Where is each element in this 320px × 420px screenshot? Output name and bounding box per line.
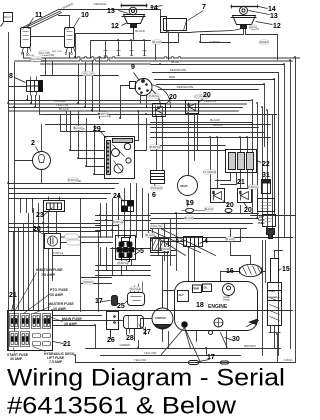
- svg-text:GREEN: GREEN: [259, 40, 268, 44]
- svg-text:YELLOW: YELLOW: [144, 351, 157, 355]
- svg-text:21: 21: [9, 292, 17, 299]
- svg-text:IGNITION FUSE: IGNITION FUSE: [36, 268, 63, 272]
- svg-text:7.5 AMP.: 7.5 AMP.: [41, 273, 55, 277]
- svg-text:13: 13: [107, 8, 115, 15]
- svg-text:21: 21: [237, 179, 245, 186]
- svg-text:BLACK: BLACK: [135, 29, 145, 33]
- svg-text:28: 28: [126, 335, 134, 342]
- svg-text:LT GREEN: LT GREEN: [203, 170, 216, 174]
- svg-text:31: 31: [262, 172, 270, 179]
- svg-text:YELLOW: YELLOW: [83, 72, 94, 76]
- svg-text:9: 9: [131, 64, 135, 71]
- svg-text:20: 20: [33, 226, 41, 233]
- svg-text:TEMP: TEMP: [193, 288, 200, 291]
- svg-text:10: 10: [81, 12, 89, 19]
- svg-text:ORANGE: ORANGE: [93, 2, 106, 6]
- svg-text:2: 2: [31, 140, 35, 147]
- svg-text:14: 14: [268, 6, 276, 13]
- svg-text:30: 30: [232, 336, 240, 343]
- svg-text:26: 26: [107, 337, 115, 344]
- svg-text:7: 7: [202, 4, 206, 11]
- svg-text:SEAT: SEAT: [180, 184, 188, 188]
- svg-text:12: 12: [111, 23, 119, 30]
- svg-text:TAILLITE: TAILLITE: [151, 224, 162, 228]
- svg-text:RED/WHITE: RED/WHITE: [170, 68, 187, 72]
- svg-text:GRAY: GRAY: [249, 25, 256, 29]
- svg-text:C1534A: C1534A: [284, 359, 293, 362]
- svg-text:SOLENOID: SOLENOID: [268, 297, 280, 299]
- svg-text:17: 17: [207, 354, 215, 361]
- svg-text:BLUE: BLUE: [171, 60, 179, 64]
- svg-text:BLACK: BLACK: [205, 207, 214, 211]
- svg-text:BLACK: BLACK: [210, 118, 220, 122]
- svg-text:PTO FUSE: PTO FUSE: [50, 288, 69, 292]
- svg-text:25: 25: [117, 303, 125, 310]
- svg-text:4: 4: [204, 238, 208, 245]
- svg-text:PLUG: PLUG: [224, 300, 230, 302]
- svg-text:5: 5: [140, 248, 144, 255]
- svg-text:BLK/ORG: BLK/ORG: [30, 57, 42, 61]
- svg-text:ENGINE: ENGINE: [208, 304, 228, 310]
- svg-text:OIL: OIL: [204, 287, 209, 290]
- svg-text:GREEN: GREEN: [210, 40, 221, 44]
- svg-text:RED/OR: RED/OR: [26, 55, 35, 57]
- svg-text:18: 18: [196, 302, 204, 309]
- svg-text:BLACK: BLACK: [59, 107, 69, 111]
- svg-text:E: E: [239, 190, 242, 195]
- svg-text:29: 29: [93, 126, 101, 133]
- svg-text:BLACK: BLACK: [74, 126, 83, 130]
- svg-text:Wiring Diagram - Serial: Wiring Diagram - Serial: [7, 365, 285, 392]
- svg-text:GREEN: GREEN: [120, 343, 131, 347]
- svg-text:19: 19: [186, 200, 194, 207]
- svg-text:24: 24: [113, 193, 121, 200]
- svg-text:YELLOW: YELLOW: [204, 99, 217, 103]
- svg-text:#6413561 & Below: #6413561 & Below: [7, 393, 236, 420]
- svg-text:27: 27: [143, 329, 151, 336]
- svg-text:6: 6: [152, 192, 156, 199]
- svg-text:20: 20: [203, 92, 211, 99]
- svg-text:7.5 AMP: 7.5 AMP: [49, 360, 63, 364]
- svg-text:PURPLE: PURPLE: [68, 178, 79, 182]
- svg-text:ALT: ALT: [179, 293, 185, 297]
- svg-text:PURPLE: PURPLE: [150, 145, 161, 149]
- svg-text:YELLOW: YELLOW: [134, 358, 147, 362]
- svg-text:RED: RED: [169, 75, 176, 79]
- svg-text:10 AMP.: 10 AMP.: [53, 307, 66, 311]
- svg-text:20: 20: [244, 207, 252, 214]
- svg-text:22: 22: [262, 161, 270, 168]
- svg-text:BROWN: BROWN: [244, 344, 256, 348]
- svg-text:10 AMP.: 10 AMP.: [50, 293, 63, 297]
- svg-text:16: 16: [226, 268, 234, 275]
- svg-text:RELAY: RELAY: [4, 16, 12, 19]
- svg-text:21: 21: [63, 341, 71, 348]
- svg-text:ORANGE: ORANGE: [129, 287, 141, 291]
- svg-text:17: 17: [95, 298, 103, 305]
- svg-text:RED/WHITE: RED/WHITE: [177, 85, 194, 89]
- svg-text:PURPLE: PURPLE: [53, 251, 64, 255]
- svg-text:15: 15: [282, 266, 290, 273]
- svg-text:BLACK: BLACK: [213, 123, 223, 127]
- svg-text:15 AMP.: 15 AMP.: [64, 322, 77, 326]
- svg-text:LT: LT: [22, 27, 25, 31]
- svg-text:BLACK: BLACK: [226, 237, 235, 241]
- svg-text:MASTER FUSE: MASTER FUSE: [48, 302, 74, 306]
- svg-text:3: 3: [175, 237, 179, 244]
- svg-text:MAIN FUSE: MAIN FUSE: [62, 317, 82, 321]
- svg-text:HT: HT: [66, 27, 70, 31]
- svg-text:YELLOW: YELLOW: [39, 51, 50, 55]
- svg-text:BROWN: BROWN: [161, 247, 171, 251]
- svg-text:TRAILER: TRAILER: [151, 186, 162, 190]
- svg-text:30 AMP.: 30 AMP.: [10, 357, 23, 361]
- svg-text:20: 20: [169, 94, 177, 101]
- svg-text:14: 14: [150, 5, 158, 12]
- svg-text:PURPLE: PURPLE: [248, 185, 259, 189]
- svg-text:PURPLE: PURPLE: [118, 261, 129, 265]
- svg-text:8: 8: [9, 73, 13, 80]
- svg-text:BLACK: BLACK: [185, 216, 194, 220]
- svg-text:FUEL: FUEL: [269, 290, 276, 293]
- svg-text:13: 13: [270, 13, 278, 20]
- svg-text:BLACK: BLACK: [153, 40, 162, 44]
- svg-text:BLACK: BLACK: [146, 233, 155, 237]
- svg-text:23: 23: [36, 212, 44, 219]
- svg-text:20: 20: [226, 202, 234, 209]
- svg-text:12: 12: [273, 23, 281, 30]
- svg-text:PURPLE: PURPLE: [113, 220, 124, 224]
- svg-text:11: 11: [35, 12, 43, 19]
- svg-text:GREEN: GREEN: [83, 280, 92, 284]
- svg-text:STARTER: STARTER: [155, 317, 166, 320]
- svg-text:PURPLE: PURPLE: [149, 94, 160, 98]
